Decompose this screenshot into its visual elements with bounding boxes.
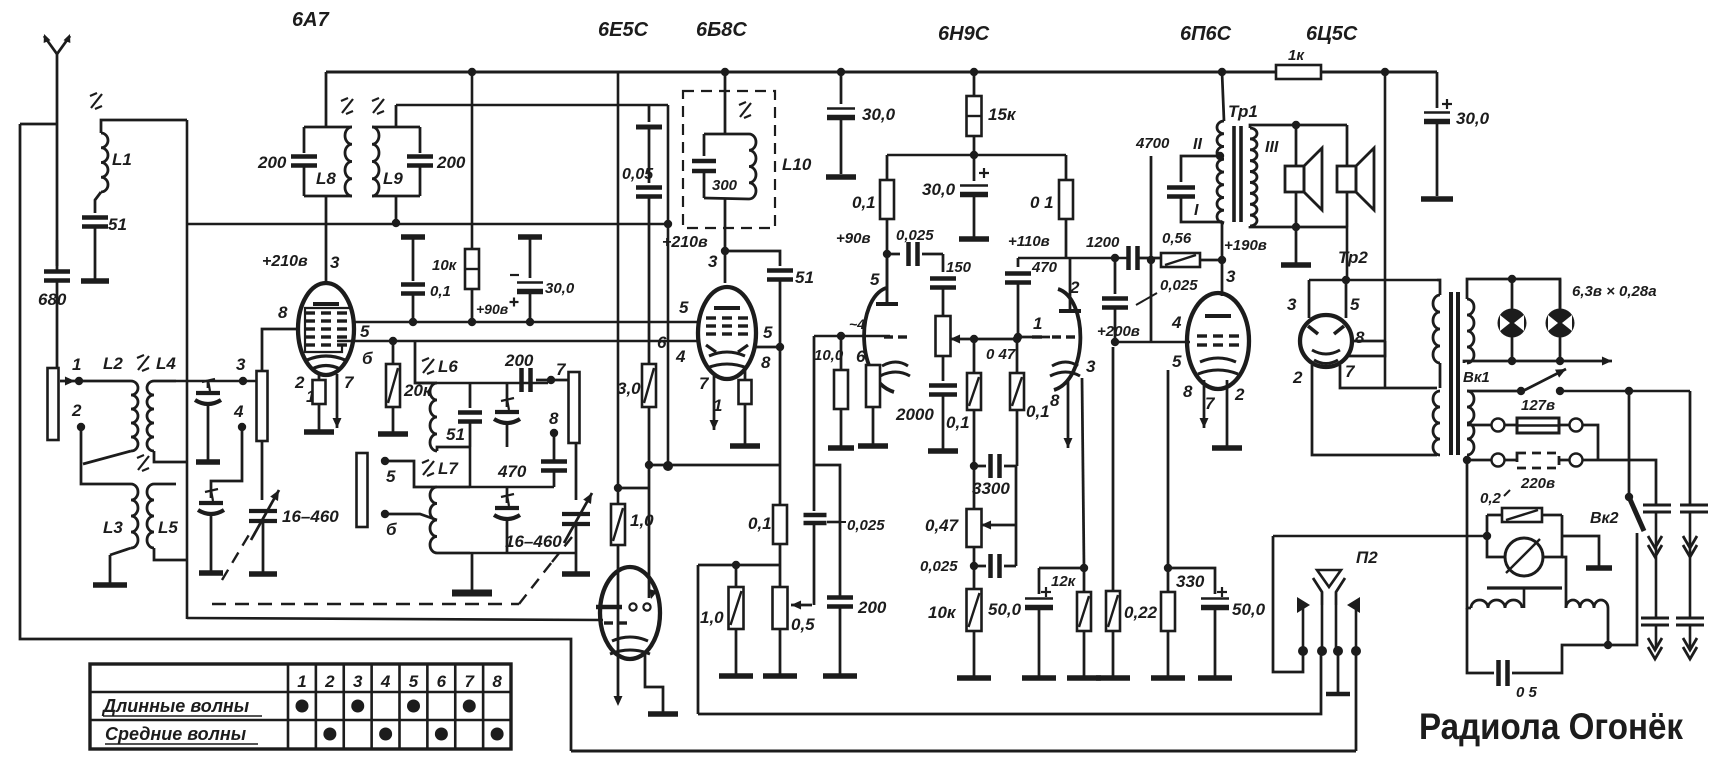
tube 6B8C plate bar <box>714 306 740 310</box>
svg-text:470: 470 <box>1031 259 1058 276</box>
wire top bus corner down to 30.0 cap <box>1436 72 1439 108</box>
capacitor 150 <box>930 254 956 314</box>
transformer Tr1 secondary <box>1250 128 1257 226</box>
svg-text:0,025: 0,025 <box>847 517 885 534</box>
label +90v <box>836 230 871 247</box>
capacitor 200 det <box>823 598 857 677</box>
label pin2 BA7 <box>294 373 305 392</box>
tube 6B8C cathode <box>707 352 747 368</box>
tube 6N9C-1 envelope <box>864 288 894 392</box>
label pin3 6P6C <box>1226 267 1236 286</box>
label 1200 <box>1086 234 1120 251</box>
speaker Gr1 <box>1285 125 1322 227</box>
svg-text:51: 51 <box>446 425 465 444</box>
wire L6 top right <box>415 382 548 385</box>
wire lamps return <box>1464 357 1612 366</box>
lamp L2 6.3v <box>1546 279 1575 361</box>
node 5 osc <box>381 457 437 487</box>
svg-text:L5: L5 <box>158 518 178 537</box>
core mark L4 <box>137 355 149 371</box>
wire bus vertical 472 <box>471 72 474 249</box>
svg-text:0,1: 0,1 <box>852 193 876 212</box>
svg-text:L6: L6 <box>438 357 458 376</box>
wire AVC bridge <box>814 465 840 597</box>
wiper arrow 0.47 <box>981 521 1016 530</box>
label 0.1 a <box>946 413 970 432</box>
svg-text:3: 3 <box>1287 295 1297 314</box>
svg-text:3: 3 <box>708 252 718 271</box>
svg-text:0,22: 0,22 <box>1124 603 1158 622</box>
label 0.1 b <box>1026 402 1050 421</box>
svg-text:0,1: 0,1 <box>1026 402 1050 421</box>
tube 6N9C-2 envelope <box>1054 289 1080 390</box>
svg-text:10к: 10к <box>928 603 957 622</box>
svg-text:0,1: 0,1 <box>430 283 451 300</box>
transformer Tr2 winding fil <box>1467 279 1560 363</box>
svg-text:6: 6 <box>437 672 447 691</box>
svg-text:50,0: 50,0 <box>1232 600 1266 619</box>
svg-text:L8: L8 <box>316 169 336 188</box>
label pin6 6B8C <box>657 333 667 352</box>
label 0.1 AVC <box>430 283 451 300</box>
antenna terminal strip <box>48 368 59 440</box>
label 0.025 tone <box>920 558 958 575</box>
node 6 osc <box>381 510 437 539</box>
ground speakers <box>1281 223 1311 265</box>
svg-text:L3: L3 <box>103 518 123 537</box>
capacitor 470 <box>1005 258 1031 337</box>
tube 6C5C cathode <box>1312 350 1340 364</box>
tube 6P6C plate bar <box>1205 314 1231 318</box>
wire L9 top lead <box>395 105 398 127</box>
label 0.1 IF <box>748 514 772 533</box>
label 10k <box>928 603 957 622</box>
label pin7 6B8C <box>699 374 710 393</box>
tube 6P6C cathode <box>1198 358 1238 374</box>
wire fb feed <box>1147 156 1155 342</box>
svg-text:+210в: +210в <box>662 234 708 251</box>
svg-text:5: 5 <box>763 323 773 342</box>
svg-text:0,2: 0,2 <box>1480 490 1502 507</box>
resistor 3.0 <box>642 341 656 469</box>
svg-text:8: 8 <box>549 409 559 428</box>
svg-text:1: 1 <box>72 355 81 374</box>
wire 6N9C cathode down <box>1082 378 1084 568</box>
svg-text:4: 4 <box>233 402 244 421</box>
label 4700 <box>1135 135 1170 152</box>
label 30.0 screen <box>922 180 956 199</box>
variable capacitor C tune 2 <box>562 493 592 574</box>
svg-text:6,3в × 0,28а: 6,3в × 0,28а <box>1572 283 1657 300</box>
label 1.0 eye <box>630 511 654 530</box>
tube 6E5C cathode <box>610 637 650 654</box>
resistor 0.1 IF <box>773 347 787 565</box>
wire 6B8C pin5 AVC <box>753 343 784 351</box>
label 30.0 main <box>1456 109 1490 128</box>
wire P2 t3 <box>1326 651 1350 694</box>
title Radiola Ogonyok <box>1419 706 1683 747</box>
svg-text:~4: ~4 <box>849 316 865 332</box>
wire bottom ground bus <box>571 750 1356 753</box>
tube BA7 grids <box>305 308 349 352</box>
svg-text:3300: 3300 <box>972 479 1010 498</box>
wire motor feed <box>1273 535 1487 538</box>
svg-text:3,0: 3,0 <box>617 379 641 398</box>
wire pin2 down to L3 <box>81 427 113 484</box>
plug prongs <box>1641 505 1708 659</box>
resistor 0.1 left <box>880 155 894 252</box>
svg-text:7: 7 <box>1345 362 1356 381</box>
svg-text:б: б <box>386 520 397 539</box>
svg-text:0,025: 0,025 <box>1160 277 1198 294</box>
core mark L3/L5 <box>137 455 149 471</box>
svg-text:+110в: +110в <box>1008 233 1050 250</box>
label 2000 <box>895 405 934 424</box>
svg-text:5: 5 <box>386 467 396 486</box>
svg-text:6Е5С: 6Е5С <box>598 19 649 41</box>
label 0.47 <box>925 516 960 535</box>
label 50.0 a <box>988 600 1022 619</box>
pickup P2 symbol <box>1297 570 1360 648</box>
antenna W1 <box>20 34 70 271</box>
svg-text:15к: 15к <box>988 105 1017 124</box>
resistor 0.1 right <box>1059 155 1073 258</box>
label 0 47 <box>986 346 1016 363</box>
svg-text:200: 200 <box>257 153 287 172</box>
core mark L8 <box>341 98 353 114</box>
svg-text:127в: 127в <box>1521 397 1555 414</box>
svg-text:+210в: +210в <box>262 253 308 270</box>
capacitor 0.5 mains <box>1499 645 1630 686</box>
label L1 <box>112 150 132 169</box>
label Tr2 <box>1338 248 1368 267</box>
capacitor 50.0 b <box>1168 568 1232 678</box>
node bus junction L8 <box>468 68 476 76</box>
label +210v 6B8C <box>662 234 708 251</box>
tube 6P6C grids <box>1197 336 1239 345</box>
label 0.1 left <box>852 193 876 212</box>
inductor L1 <box>95 120 187 213</box>
node bus junction rectifier <box>1381 68 1389 76</box>
label 20k <box>403 381 433 400</box>
wire screen rail <box>887 151 1066 159</box>
label pin2 6C5C <box>1292 368 1303 387</box>
label BA7 <box>292 9 330 31</box>
label 0.05 <box>622 166 654 183</box>
wire filter left <box>1467 460 1494 673</box>
svg-text:16–460: 16–460 <box>505 532 562 551</box>
svg-text:330: 330 <box>1176 572 1205 591</box>
resistor 15k <box>967 72 982 155</box>
switch Vk1 <box>1467 369 1566 395</box>
capacitor 1200 <box>1129 246 1162 270</box>
svg-text:0 5: 0 5 <box>1516 684 1538 701</box>
svg-text:0,47: 0,47 <box>925 516 960 535</box>
label +110v <box>1008 233 1050 250</box>
table label medium waves <box>105 724 258 744</box>
transformer Tr1 core <box>1234 126 1241 222</box>
tube BA7 cathode arrow <box>333 374 342 428</box>
wire L7 bottom rail <box>470 552 576 555</box>
label pin8 6C5C <box>1355 328 1365 347</box>
wire 6P6C pin2 ground <box>1212 380 1242 448</box>
tube 6E5C grid dashes <box>604 621 627 624</box>
svg-text:5: 5 <box>679 298 689 317</box>
wire magic eye tie <box>618 487 649 490</box>
svg-text:0,025: 0,025 <box>896 227 934 244</box>
node bus junction 30.0 <box>837 68 845 76</box>
wire 6C5C fil 2 <box>1312 365 1437 455</box>
wire AVC chain <box>813 336 816 511</box>
node 20k top <box>389 337 397 345</box>
label pin8 6N9C <box>1050 391 1060 410</box>
svg-text:Длинные волны: Длинные волны <box>101 696 250 716</box>
node pin 3 input <box>236 355 247 385</box>
label pin2 6P6C <box>1234 385 1245 404</box>
svg-text:10к: 10к <box>432 257 458 274</box>
svg-text:2: 2 <box>294 373 305 392</box>
label 6E5C <box>598 19 649 41</box>
svg-text:3: 3 <box>1226 267 1236 286</box>
svg-text:200: 200 <box>436 153 466 172</box>
svg-text:L7: L7 <box>438 459 459 478</box>
inductor L7 <box>430 487 470 553</box>
trimmer C input 1 <box>195 379 221 462</box>
svg-text:Тр2: Тр2 <box>1338 248 1368 267</box>
label core L7 <box>422 460 434 476</box>
tube 6N9C-1 plate <box>876 254 898 304</box>
label 0.1 right <box>1030 193 1054 212</box>
label 51 antenna <box>108 215 127 234</box>
label +210v BA7 <box>262 253 308 270</box>
wire cathode bias node <box>1039 564 1088 572</box>
svg-text:6: 6 <box>856 347 866 366</box>
wire detector box <box>698 565 781 714</box>
label 127v <box>1521 397 1555 414</box>
label pin4 6B8C <box>675 347 686 366</box>
label 0.025 AVC <box>841 517 885 534</box>
label 3.0 <box>617 379 641 398</box>
svg-text:6: 6 <box>657 333 667 352</box>
label L7 <box>438 459 459 478</box>
wire pin1 to L2 <box>79 380 113 383</box>
capacitor 0.025 AVC <box>804 515 827 523</box>
band switch contact K3 <box>569 372 580 443</box>
wire 6C5C fil 7 <box>1340 365 1437 388</box>
tube 6E5C cathode leg <box>645 652 678 714</box>
label L9 <box>383 169 403 188</box>
label pin5 6P6C <box>1172 352 1182 371</box>
svg-text:8: 8 <box>1355 328 1365 347</box>
svg-text:8: 8 <box>1050 391 1060 410</box>
filter coil right <box>1566 600 1608 608</box>
label pin5 6C5C <box>1350 295 1360 314</box>
core mark L1 <box>90 93 102 109</box>
label 6P6C <box>1180 23 1232 45</box>
ground L7 <box>452 553 492 593</box>
capacitor 30.0 AVC <box>510 237 544 326</box>
label 300 <box>712 177 738 194</box>
label L10 <box>782 155 812 174</box>
tube 6N9C-2 plate <box>1059 258 1081 311</box>
svg-text:30,0: 30,0 <box>1456 109 1490 128</box>
capacitor 0.1 AVC <box>401 237 425 326</box>
inductor L5 <box>147 484 187 560</box>
capacitor 4700 <box>1167 156 1222 222</box>
node 7 osc <box>547 360 567 384</box>
label pin5 BA7 <box>360 322 370 341</box>
label 0.025 fb <box>1136 277 1198 305</box>
resistor 0.2 <box>1487 508 1562 522</box>
capacitor 0.025 tone <box>970 554 1016 578</box>
svg-text:5: 5 <box>409 672 419 691</box>
svg-text:3: 3 <box>330 253 340 272</box>
label 0.5 <box>791 615 815 634</box>
label pin8 BA7 <box>278 303 288 322</box>
tube 6B8C diode plates <box>706 345 748 352</box>
tube BA7 cathode leg <box>304 372 334 432</box>
tube BA7 plate bar <box>313 302 339 306</box>
wire 6P6C pin5 down <box>1167 370 1170 455</box>
core mark L6 <box>422 358 434 374</box>
svg-text:L1: L1 <box>112 150 132 169</box>
trimmer C input 2 <box>198 489 224 573</box>
node dot 618/488 <box>614 484 622 492</box>
svg-text:+200в: +200в <box>1097 323 1140 340</box>
svg-text:4700: 4700 <box>1135 135 1170 152</box>
svg-text:5: 5 <box>1350 295 1360 314</box>
resistor 0.22 <box>1096 347 1130 678</box>
svg-text:3: 3 <box>236 355 246 374</box>
wire pin4 to trimmer 2 <box>211 427 242 498</box>
svg-text:+190в: +190в <box>1224 237 1267 254</box>
svg-text:8: 8 <box>1183 382 1193 401</box>
wire grid line 6N9C <box>814 332 890 340</box>
label 10.0 <box>814 347 844 364</box>
core mark L9 <box>372 98 384 114</box>
svg-text:3: 3 <box>1086 357 1096 376</box>
wire plate lead 6N9C-1 <box>886 254 889 304</box>
label 680 <box>38 290 67 309</box>
label +190v <box>1224 237 1267 254</box>
inductor L6 <box>415 341 470 451</box>
svg-text:200: 200 <box>504 351 534 370</box>
potentiometer 0.5 <box>763 565 797 676</box>
resistor 10k <box>957 589 991 678</box>
capacitor 200 osc <box>522 368 569 392</box>
label pin3 6C5C <box>1287 295 1297 314</box>
svg-text:2: 2 <box>1069 278 1080 297</box>
svg-text:0,5: 0,5 <box>791 615 815 634</box>
wire 6P6C anode <box>1221 260 1224 296</box>
dashed tuning gang link <box>212 532 576 604</box>
label 6N9C <box>938 23 990 45</box>
label 0.22 <box>1124 603 1158 622</box>
label III <box>1265 139 1279 156</box>
fuse 220v <box>1463 453 1656 505</box>
wire band line 3 <box>176 380 256 383</box>
label 51 L6 <box>446 425 465 444</box>
label pin8 6P6C <box>1183 382 1193 401</box>
node input pin 2 <box>71 401 85 431</box>
label L2 <box>103 354 123 373</box>
svg-text:30,0: 30,0 <box>545 280 575 297</box>
svg-text:10,0: 10,0 <box>814 347 844 364</box>
label 16-460 input <box>282 507 339 526</box>
fuse 127v <box>1467 418 1598 460</box>
transformer Tr2 winding HV <box>1433 280 1440 388</box>
label 470 <box>1031 259 1058 276</box>
inductor L3 <box>110 484 138 555</box>
label pin7 6P6C <box>1205 394 1216 413</box>
label 8 osc <box>549 409 559 428</box>
node pin 4 input <box>233 402 246 431</box>
svg-text:7: 7 <box>344 373 355 392</box>
wire BA7 pin8 left <box>262 329 298 371</box>
tube 6E5C envelope <box>600 567 660 659</box>
label pin6 BA7 <box>362 349 373 368</box>
capacitor 50.0 a <box>1022 568 1056 678</box>
label 1.0 det <box>700 608 724 627</box>
label 200 L9 <box>436 153 466 172</box>
label +90v AVC <box>476 301 509 317</box>
svg-text:7: 7 <box>465 672 476 691</box>
band switch contact K1 <box>257 371 268 441</box>
capacitor 0.025 coupl <box>887 242 943 266</box>
band switch contact K4 <box>357 453 368 527</box>
chassis bar motor <box>1487 588 1562 600</box>
svg-text:Радиола Огонёк: Радиола Огонёк <box>1419 706 1683 747</box>
capacitor 30.0 screen <box>959 155 989 239</box>
label 12k <box>1051 573 1077 590</box>
svg-text:1,0: 1,0 <box>630 511 654 530</box>
resistor 12k <box>1067 568 1101 678</box>
svg-text:5: 5 <box>360 322 370 341</box>
dashed box L10 <box>683 91 775 228</box>
label pin6 6N9C <box>856 347 866 366</box>
wire filter right <box>1604 608 1612 649</box>
tube 6C5C envelope <box>1300 315 1352 367</box>
tube 6N9C-2 cathode <box>1050 362 1080 376</box>
resistor 1.0 eye grid <box>611 504 625 545</box>
tube 6E5C anode contacts <box>596 603 651 610</box>
svg-text:6П6С: 6П6С <box>1180 23 1232 45</box>
label Tr1 <box>1228 102 1258 121</box>
node Tr1 tap <box>1216 152 1224 160</box>
svg-text:6Б8С: 6Б8С <box>696 19 747 41</box>
label pin3 6B8C <box>708 252 718 271</box>
label 1k <box>1288 47 1305 64</box>
transformer Tr2 winding mains <box>1467 391 1474 455</box>
wire lower rail to pickup <box>698 651 1321 714</box>
label 6.3v <box>1572 283 1657 300</box>
svg-text:50,0: 50,0 <box>988 600 1022 619</box>
svg-text:L2: L2 <box>103 354 123 373</box>
label pin5 6N9C <box>870 270 880 289</box>
svg-text:2000: 2000 <box>895 405 934 424</box>
label pin1 6N9C <box>1033 314 1042 333</box>
svg-text:200: 200 <box>857 598 887 617</box>
inductor L4 <box>147 381 187 462</box>
wire speaker bottom <box>1250 226 1347 227</box>
label 220v <box>1520 475 1555 492</box>
node input pin 1 <box>60 355 83 385</box>
wire L7 top rail <box>470 447 554 487</box>
inductor L2 <box>83 381 138 464</box>
label 30.0 AVC <box>545 280 575 297</box>
resistor 0.56 <box>1161 253 1222 267</box>
svg-text:51: 51 <box>795 268 814 287</box>
